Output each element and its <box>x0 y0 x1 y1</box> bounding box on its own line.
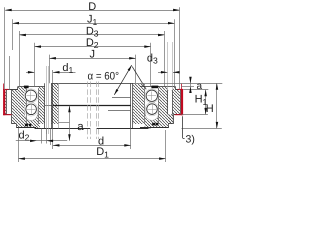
inner ring bore steps <box>112 97 131 99</box>
dimension H1 <box>205 90 207 115</box>
svg-text:a: a <box>197 81 203 92</box>
outer ring rim bottom edges <box>3 114 11 116</box>
dimension d <box>53 145 131 147</box>
inner ring bolt hole left (J) <box>44 83 46 128</box>
outer ring bolt hole right (d3) <box>167 90 169 114</box>
extension lines top right <box>179 7 181 90</box>
balls <box>25 90 36 101</box>
extension lines bottom <box>18 128 20 162</box>
red marked OD surface right <box>181 89 183 115</box>
inner ring left section (hatched) <box>38 87 45 125</box>
dimension a left <box>69 106 71 141</box>
outer ring OD faces <box>4 90 6 115</box>
cage left section <box>26 88 28 124</box>
ball pockets (cutouts) <box>24 89 38 103</box>
reference lines right <box>134 83 223 85</box>
svg-text:D: D <box>88 1 96 13</box>
inner ring bottom flange wedge left (hatched) <box>34 125 40 129</box>
bearing bottom faces <box>16 127 36 129</box>
svg-text:H: H <box>206 103 214 115</box>
extension lines top left <box>4 7 6 90</box>
dimension D1 <box>18 158 165 160</box>
dimension J1 <box>13 23 175 25</box>
outer ring right section (hatched) <box>158 87 175 128</box>
svg-text:J: J <box>89 49 95 61</box>
dimension D <box>5 10 179 12</box>
svg-text:a: a <box>77 121 84 133</box>
outer ring rim top edges <box>3 89 18 91</box>
bearing top face lines <box>51 83 133 85</box>
lower washer under balls right (hatched) <box>145 115 158 128</box>
dimension H <box>216 83 218 128</box>
dimension a right <box>190 78 192 93</box>
cage right section <box>144 88 146 124</box>
dimension d1 <box>52 70 54 83</box>
inner ring bottom flange wedge right (hatched) <box>145 125 151 129</box>
inner ring right section (hatched) <box>133 83 145 124</box>
bore walls <box>52 83 54 128</box>
lower washer under balls left (hatched) <box>27 115 39 128</box>
outer ring bolt hole left (J1) <box>6 90 8 115</box>
outer ring left section (hatched) <box>5 90 6 115</box>
footnote 3) leader <box>182 116 184 138</box>
dimension J <box>49 58 135 60</box>
svg-text:α = 60°: α = 60° <box>88 70 120 82</box>
dimension D2 <box>35 46 151 48</box>
red marked OD surface left <box>3 89 5 115</box>
middle joint line (dark) <box>53 105 131 107</box>
central shaft hole lines <box>87 82 89 140</box>
svg-text:3): 3) <box>186 133 195 145</box>
raceway groove arcs under bottom balls <box>25 108 38 121</box>
dimension D3 <box>19 34 164 36</box>
